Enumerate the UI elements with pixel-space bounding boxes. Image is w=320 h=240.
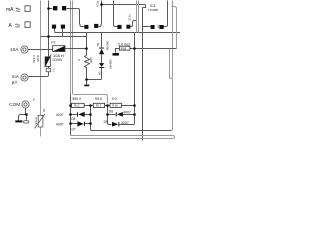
- node dot rail107 R row: [106, 104, 109, 107]
- wire COM dot to cap rect: [26, 115, 28, 121]
- diode D4: [99, 63, 104, 68]
- diode D8: [77, 112, 85, 117]
- wire vertical x=142.2 full height: [142, 8, 144, 141]
- svg-text:D4: D4: [98, 72, 102, 76]
- wire W1 bottom long y=130.2: [92, 130, 172, 132]
- diode D7: [77, 121, 85, 126]
- fuse F2 body: [53, 46, 65, 52]
- svg-text:4007: 4007: [121, 121, 129, 125]
- wire D7 bar to rail90: [85, 123, 91, 125]
- resistor R17 box: [93, 103, 104, 107]
- switch contact sqD: [94, 24, 98, 28]
- switch contact sq1 row1: [53, 6, 57, 10]
- wire rail x=134.7 from bus to D5 corner: [134, 33, 136, 115]
- node dot R18 right: [133, 47, 136, 50]
- wire R12 to R17: [85, 105, 94, 107]
- wire D3 column from bus: [101, 33, 103, 48]
- wire sqG lead from x142.2: [143, 26, 151, 28]
- svg-text:R18: R18: [121, 46, 127, 50]
- wire R16 right lead: [122, 105, 135, 107]
- node dot D6 rail134: [133, 113, 136, 116]
- wire vertical x=136.2: [136, 1, 138, 33]
- wire D7 lead from rail: [71, 123, 78, 125]
- resistor R16 box: [110, 103, 121, 107]
- node dot D6 rail107: [106, 113, 109, 116]
- node dot D7 rail70: [69, 122, 72, 125]
- jack mA/uA: [21, 74, 28, 81]
- wire W1 riser x=172.6 down to y130.2: [171, 79, 173, 131]
- svg-text:/240V: /240V: [52, 57, 63, 62]
- switch contact sq2 row1: [62, 6, 66, 10]
- svg-text:4007: 4007: [56, 122, 64, 126]
- svg-text:D7: D7: [72, 127, 76, 131]
- svg-text:R12: R12: [74, 104, 80, 108]
- wire sqH lead riser x=167.3: [164, 1, 168, 27]
- node dot F2 output: [85, 47, 88, 50]
- label rot small near F1 bottom: [52, 69, 55, 71]
- legend A square: [25, 22, 30, 28]
- wire vertical x=73.7 to R12 feed: [73, 1, 108, 104]
- svg-text:mA: mA: [6, 7, 14, 13]
- wire R18 right lead long to x=175.3: [130, 48, 177, 50]
- wire F2 right lead to dot: [65, 48, 87, 50]
- switch contact sqH: [160, 25, 164, 29]
- svg-text:980 0: 980 0: [72, 97, 81, 101]
- wire D6 lead from rail107: [108, 114, 116, 116]
- svg-text:D5: D5: [104, 120, 108, 124]
- wire vertical x=70 (left rail): [70, 1, 72, 95]
- box2 flat bottom strip: [71, 136, 175, 139]
- wire R12 left lead: [71, 105, 72, 107]
- wire D8 lead from rail: [71, 114, 78, 116]
- ground bar R18: [113, 53, 119, 56]
- svg-text:COM: COM: [9, 102, 20, 107]
- diode D3: [99, 48, 104, 55]
- wire R17 to R16: [105, 105, 111, 107]
- wire rail x=90.4 down to W1: [91, 106, 92, 131]
- diode D5: [112, 122, 119, 127]
- wire stub sqB to bus: [62, 29, 64, 37]
- wire riser x=114.8 to sqE: [114, 1, 118, 27]
- wire U loop verticals x=169.4 x=172.6: [170, 1, 173, 79]
- wire mA jack to F1: [29, 72, 49, 77]
- wire sq1 lead row1: [49, 8, 53, 10]
- node dot row1 x48: [47, 7, 50, 10]
- wire stub sqA to bus: [55, 29, 56, 33]
- resistor R18 box: [119, 46, 129, 50]
- label gray mark right of sqG: [158, 25, 160, 28]
- node dot D8 rail90: [89, 113, 92, 116]
- legend A acdc symbol: [15, 24, 19, 27]
- wire vertical x=48 (switch to F1): [48, 1, 50, 57]
- wire net-b y=36.4: [41, 36, 87, 38]
- svg-text:D8: D8: [71, 117, 75, 121]
- wire IC4 right pin to R18 lead: [172, 7, 177, 49]
- svg-text:T1536B: T1536B: [148, 8, 158, 12]
- wire rail x=107.4 D6 D5: [108, 106, 112, 125]
- resistor R08 zigzag: [85, 56, 90, 80]
- wire 10A jack to F2: [28, 49, 53, 51]
- svg-text:D6: D6: [109, 110, 113, 114]
- svg-text:R17: R17: [96, 104, 102, 108]
- wire vertical x=40: [40, 1, 42, 137]
- legend mA acdc symbol: [16, 8, 20, 11]
- switch contact sqC: [84, 25, 88, 29]
- wire vertical x=138.4: [138, 1, 140, 33]
- wire top bus y=4.3: [102, 5, 146, 8]
- svg-text:90 0: 90 0: [95, 97, 102, 101]
- switch contact sqF: [126, 25, 130, 29]
- wire zigzag bottom to ground: [86, 80, 88, 85]
- svg-text:R16: R16: [112, 104, 118, 108]
- node dot zigzag bottom: [85, 78, 88, 81]
- wire sq2 lead to riser x79.2: [67, 9, 85, 27]
- diode D6: [116, 112, 123, 117]
- svg-text:PTC1: PTC1: [34, 117, 38, 125]
- PTC1 box: [35, 114, 45, 128]
- wire riser x=101.9 with top dot branch: [99, 1, 102, 27]
- wire R18 left lead to ground: [116, 49, 120, 53]
- wire bus y=32.2: [55, 32, 181, 34]
- resistor R12 box: [71, 103, 84, 107]
- node dot rail70 R row: [69, 104, 72, 107]
- svg-text:10A: 10A: [10, 47, 19, 52]
- node dot rail90 R row: [89, 104, 92, 107]
- node dot x48 net-b: [47, 35, 50, 38]
- node dot COM: [25, 113, 28, 116]
- label tick near COM: [33, 99, 34, 101]
- wire D6 base to rail134: [123, 114, 135, 116]
- svg-text:F2: F2: [51, 41, 55, 45]
- wire riser from F2 dot to bus: [86, 33, 88, 56]
- svg-text:FC4: FC4: [95, 1, 99, 7]
- jack COM: [22, 101, 29, 108]
- wire D4 bar down corner left to dot: [87, 68, 102, 80]
- fuse F1 body: [45, 56, 51, 67]
- svg-text:4007: 4007: [56, 113, 64, 117]
- switch contact sqA: [52, 25, 56, 29]
- legend mA square: [25, 6, 30, 12]
- svg-text:R08: R08: [89, 58, 93, 64]
- capacitor-pad rect COM: [24, 121, 29, 123]
- jack 10A: [21, 46, 28, 53]
- wire COM jack down to dot: [19, 109, 26, 121]
- ground bar zigzag: [84, 85, 89, 87]
- svg-text:9 0: 9 0: [112, 97, 117, 101]
- node dot D8 rail70: [69, 113, 72, 116]
- node dot top bus: [100, 3, 103, 6]
- svg-text:µA: µA: [12, 79, 19, 84]
- wire F1 box to lower rect: [48, 67, 50, 69]
- ground bar COM: [15, 120, 22, 122]
- svg-text:4007: 4007: [123, 110, 131, 114]
- fuse F1 lower clip rect: [46, 68, 50, 71]
- wire D3-D4 link: [101, 55, 103, 64]
- wire D8 base to rail90: [85, 114, 91, 116]
- switch contact sqB: [61, 25, 65, 29]
- svg-text:FC3: FC3: [127, 15, 131, 21]
- switch contact sqG: [151, 25, 155, 29]
- node dot rail134 R row: [133, 104, 136, 107]
- wire sqF lead to riser x=132.5: [131, 21, 137, 27]
- node dot D7 rail90: [89, 122, 92, 125]
- wire D5 right lead corner up: [120, 115, 135, 125]
- switch contact sqE: [117, 25, 121, 29]
- svg-text:D3: D3: [96, 43, 100, 47]
